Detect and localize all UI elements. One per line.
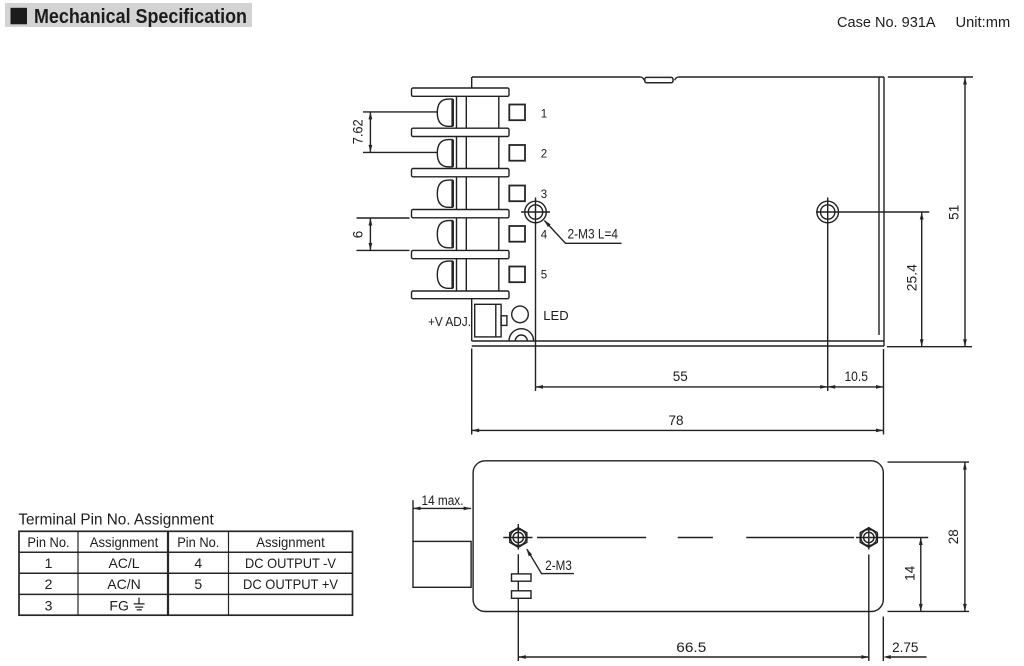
terminal barrier fin 6 <box>412 291 510 299</box>
pin square 3 <box>509 186 525 202</box>
svg-text:1: 1 <box>45 555 53 571</box>
dim 2.75 extension line <box>882 617 884 662</box>
svg-text:3: 3 <box>45 597 53 613</box>
pin square 5 <box>509 267 525 283</box>
top view: case right edge double line <box>879 77 884 341</box>
svg-text:5: 5 <box>194 576 202 592</box>
svg-text:2-M3 L=4: 2-M3 L=4 <box>568 227 619 242</box>
terminal screw clamp 4 <box>437 221 454 248</box>
dim 66.5 line and arrows <box>518 655 869 659</box>
dim 28 extension lines <box>888 462 970 611</box>
top view: case bottom edge with flange lip <box>472 341 884 346</box>
svg-text:FG: FG <box>109 597 128 613</box>
dim 51 line and arrows <box>963 77 967 347</box>
side view terminal block protrusion <box>413 541 471 587</box>
svg-text:Pin No.: Pin No. <box>177 534 219 550</box>
terminal barrier fin 3 <box>412 169 510 177</box>
top view: case left edge <box>471 77 473 341</box>
dim 7.62 extension lines <box>363 112 437 152</box>
dim 28 line and arrows <box>963 462 967 611</box>
terminal screw clamp 3 <box>437 180 454 207</box>
dim 14 max line and arrows <box>413 507 471 511</box>
svg-text:+V ADJ.: +V ADJ. <box>428 315 471 329</box>
svg-text:Assignment: Assignment <box>256 534 325 550</box>
svg-text:Assignment: Assignment <box>90 534 159 550</box>
svg-text:5: 5 <box>541 270 547 282</box>
table row 1 <box>45 555 337 571</box>
svg-text:Mechanical Specification: Mechanical Specification <box>34 6 247 28</box>
terminal barrier fin 2 <box>412 128 510 136</box>
dim 6 extension lines <box>357 218 410 250</box>
dim 25.4 line and arrows <box>920 212 924 347</box>
svg-text:Case No. 931A: Case No. 931A <box>837 14 936 31</box>
header gray bar <box>5 3 252 27</box>
svg-text:AC/L: AC/L <box>108 555 139 571</box>
svg-text:AC/N: AC/N <box>107 576 140 592</box>
pin square 1 <box>509 105 525 121</box>
mounting hole M3 right (side view) hex and circles <box>860 528 877 548</box>
svg-text:6: 6 <box>350 231 365 239</box>
side view center line dashes <box>537 537 854 539</box>
dim 14 max extension line <box>412 500 414 541</box>
svg-text:2.75: 2.75 <box>892 640 918 655</box>
pin square 2 <box>509 145 525 161</box>
pin square 4 <box>509 226 525 242</box>
ground symbol <box>134 598 145 610</box>
left hex standoff crosshair <box>503 524 532 661</box>
right hole centerline and extension <box>856 527 928 661</box>
leader 2-M3 <box>525 548 574 574</box>
terminal barrier fin 1 <box>412 88 510 96</box>
svg-text:66.5: 66.5 <box>676 640 706 655</box>
svg-text:10.5: 10.5 <box>844 369 868 384</box>
dim 78 extension lines <box>472 349 884 435</box>
dim 78 line and arrows <box>472 429 884 433</box>
terminal barrier fin 5 <box>412 250 510 258</box>
terminal screw clamp 5 <box>437 261 454 288</box>
table header row <box>27 534 324 550</box>
solder pad rectangle 2 <box>512 591 532 599</box>
svg-text:25.4: 25.4 <box>904 264 919 291</box>
dim 10.5 line and arrows <box>828 385 884 389</box>
svg-text:Unit:mm: Unit:mm <box>956 14 1011 31</box>
right hole centerlines / extension lines <box>816 198 929 392</box>
side view case outline <box>473 461 883 612</box>
svg-text:DC OUTPUT +V: DC OUTPUT +V <box>243 576 339 592</box>
top view: vent notch <box>641 77 678 83</box>
dim 2.75 tail line and arrow <box>883 655 926 659</box>
mounting hole M3 left (top view) <box>525 201 547 223</box>
svg-text:78: 78 <box>668 413 683 428</box>
svg-text:LED: LED <box>543 308 568 323</box>
flange screw hole half circles <box>509 329 534 341</box>
LED indicator circle <box>512 306 529 323</box>
solder pad rectangle 1 <box>512 574 532 581</box>
mounting hole M3 right (top view) <box>817 201 839 223</box>
svg-text:14: 14 <box>902 565 917 581</box>
terminal screw clamp 2 <box>437 140 454 167</box>
svg-text:1: 1 <box>541 108 547 120</box>
dim 14 line and arrows <box>919 538 923 612</box>
table grid <box>19 531 353 615</box>
potentiometer +V ADJ <box>475 304 507 337</box>
dim 6 line and arrows <box>369 218 373 250</box>
svg-text:7.62: 7.62 <box>350 119 365 144</box>
svg-text:2: 2 <box>541 148 547 160</box>
table row 2 <box>45 576 339 592</box>
svg-text:51: 51 <box>947 205 962 220</box>
svg-text:4: 4 <box>541 229 548 241</box>
terminal barrier fin 4 <box>412 210 510 218</box>
mounting hole M3 left (side view) hex and circles <box>510 528 527 548</box>
svg-text:55: 55 <box>673 369 688 384</box>
svg-text:Terminal Pin No. Assignment: Terminal Pin No. Assignment <box>18 512 214 529</box>
svg-text:DC OUTPUT -V: DC OUTPUT -V <box>245 555 337 571</box>
left hole centerlines / extension line <box>521 198 550 392</box>
table row 3 <box>45 597 129 613</box>
dim 55 line and arrows <box>536 385 828 389</box>
svg-text:14 max.: 14 max. <box>422 493 464 508</box>
svg-text:2-M3: 2-M3 <box>545 558 572 573</box>
svg-text:3: 3 <box>541 189 547 201</box>
svg-text:28: 28 <box>946 529 961 544</box>
terminal screw clamp 1 <box>437 99 454 126</box>
svg-text:4: 4 <box>194 555 202 571</box>
svg-text:2: 2 <box>45 576 53 592</box>
dim 51 extension lines <box>887 77 973 347</box>
top view: case top edge <box>472 76 884 78</box>
terminal block body vertical lines <box>457 96 499 292</box>
svg-text:Pin No.: Pin No. <box>27 534 69 550</box>
leader 2-M3 L=4 <box>542 219 621 244</box>
dim 7.62 line and arrows <box>369 112 373 152</box>
header black square bullet <box>11 8 28 25</box>
